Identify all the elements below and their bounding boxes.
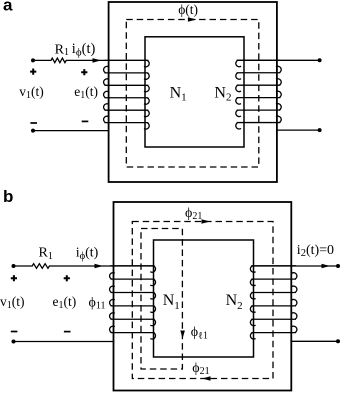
svg-text:v1(t): v1(t): [0, 294, 25, 311]
svg-text:a: a: [3, 0, 13, 15]
svg-text:iϕ(t): iϕ(t): [72, 41, 96, 58]
svg-text:ϕ(t): ϕ(t): [178, 2, 198, 17]
svg-text:v1(t): v1(t): [19, 84, 44, 101]
svg-text:b: b: [3, 187, 13, 206]
svg-text:e1(t): e1(t): [53, 294, 77, 311]
svg-text:iϕ(t): iϕ(t): [76, 246, 99, 262]
svg-text:e1(t): e1(t): [74, 84, 98, 101]
